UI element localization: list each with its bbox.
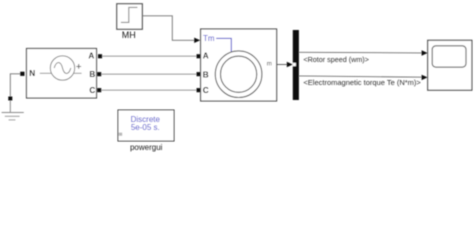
powergui block [118,110,174,152]
svg-text:A: A [88,51,94,60]
wire electromagnetic torque [299,75,428,80]
icon lead left [40,72,52,74]
scope block [428,40,472,90]
icon circle [50,56,74,80]
wire A [102,55,197,57]
svg-text:powergui: powergui [130,143,163,152]
wire rotor speed [299,50,428,55]
wire C [101,89,197,91]
signal label rotor speed [303,55,369,64]
signal label electromagnetic torque [303,78,421,87]
svg-text:B: B [203,70,209,79]
three-phase source block [27,49,97,99]
svg-text:A: A [203,52,209,61]
step block MH [117,4,143,40]
svg-text:Tm: Tm [203,34,215,43]
icon plus sign [76,64,81,69]
port C square (machine) [197,88,201,92]
icon lead right [74,72,82,74]
step waveform [121,7,137,22]
port N square [20,72,24,76]
port B square (source) [97,72,101,76]
Tm link line [216,38,231,52]
svg-text:B: B [89,70,95,79]
wire ground to N port [10,74,20,97]
port A square (machine) [197,54,201,58]
port B square (machine) [197,72,201,76]
wire step to Tm [142,16,200,43]
svg-text:C: C [203,86,209,95]
wire m to bus selector [277,62,293,67]
svg-text:C: C [89,86,95,95]
rotor outer circle [215,51,262,98]
icon sine wave [54,63,71,74]
powergui corner mark [119,133,122,136]
svg-text:MH: MH [122,30,136,40]
rotor inner circle [221,56,257,92]
port C square (source) [97,88,101,92]
scope screen [432,46,466,67]
port A square (source) [98,54,102,58]
svg-text:5e-05 s.: 5e-05 s. [131,123,160,132]
ground G1 [2,97,24,120]
bus selector bar [293,30,299,100]
svg-text:<Electromagnetic torque Te (N*: <Electromagnetic torque Te (N*m)> [303,78,421,87]
asynchronous machine block [201,29,277,101]
svg-text:N: N [29,69,35,78]
svg-text:m: m [267,60,272,67]
wire B [101,73,197,75]
svg-text:<Rotor speed (wm)>: <Rotor speed (wm)> [303,55,369,64]
